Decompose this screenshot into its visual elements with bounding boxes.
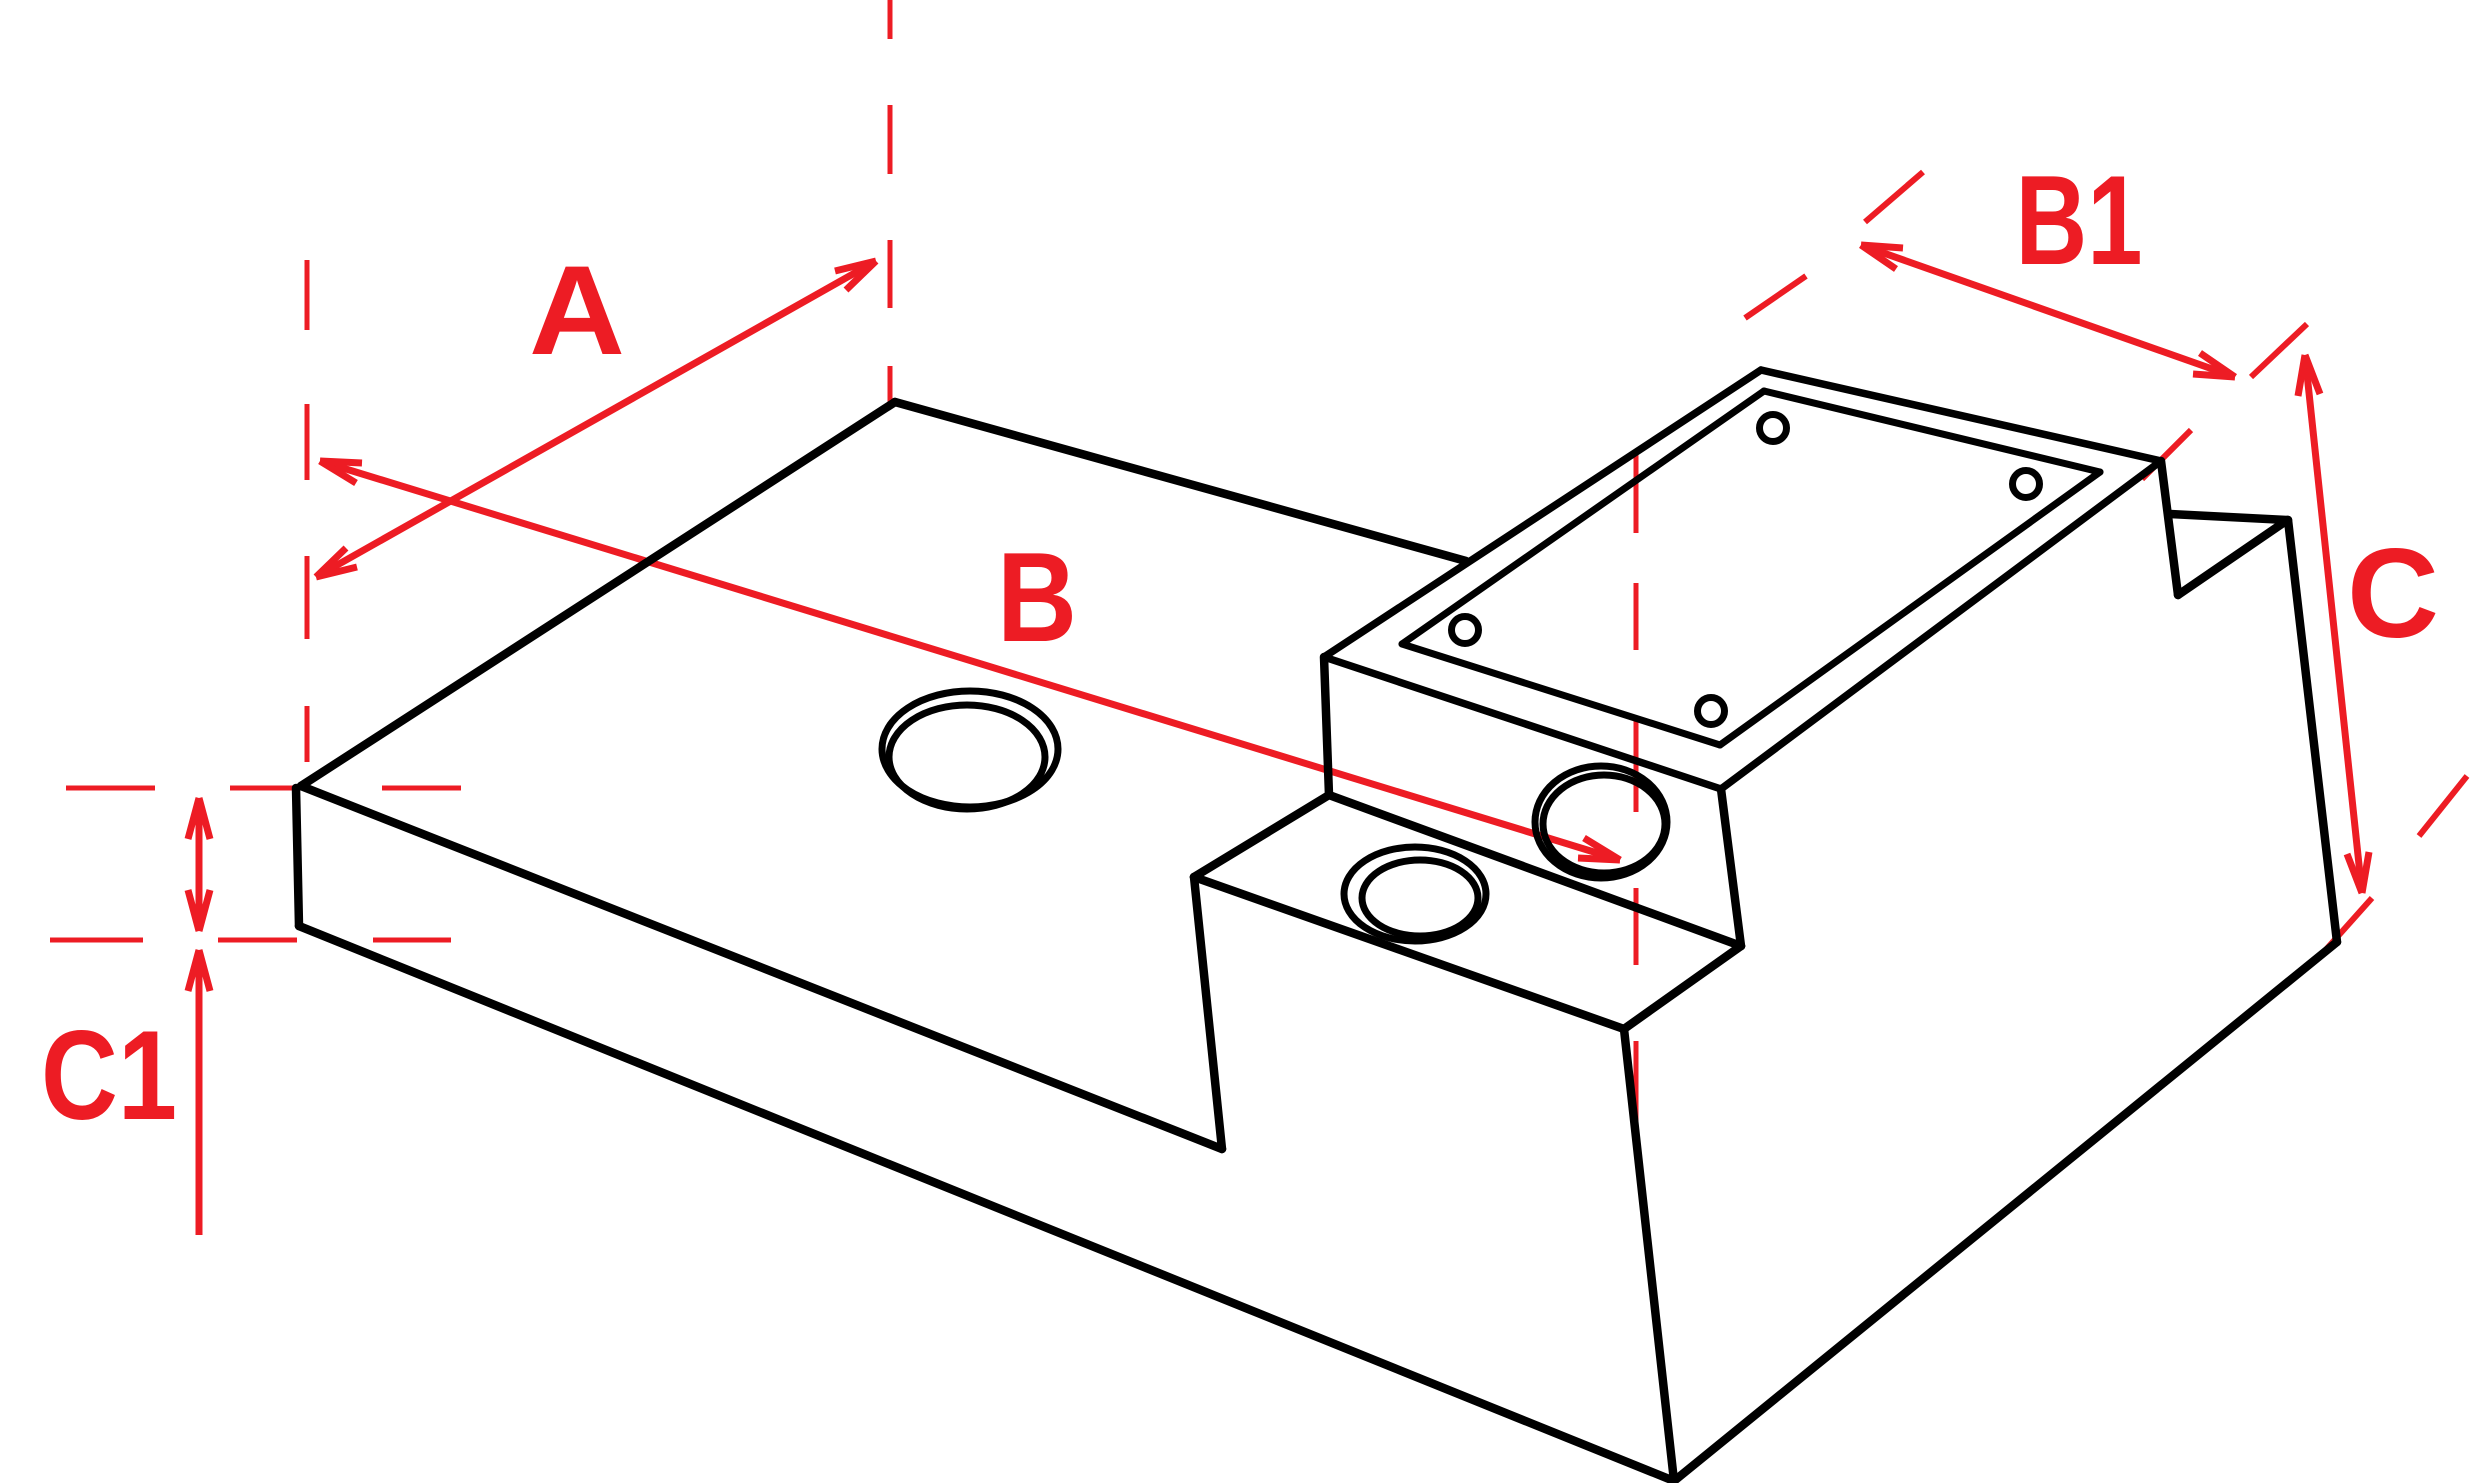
bolt hole bottom bbox=[1698, 698, 1725, 725]
left step hole inner ellipse bbox=[1362, 860, 1478, 936]
arrowhead B1 left bbox=[1861, 245, 1903, 269]
wire flange inner left edge bbox=[1402, 391, 1764, 644]
dimension line A bbox=[316, 261, 876, 577]
wire flange inner top-right edge bbox=[1764, 391, 2100, 472]
wire slab top-right rear edge bbox=[895, 402, 1466, 561]
bolt hole right bbox=[2013, 471, 2040, 498]
wire slab top front edge bbox=[301, 786, 1222, 1149]
wire flange inner bottom-left edge bbox=[1402, 644, 1720, 745]
svg-text:A: A bbox=[529, 239, 625, 381]
arrowhead B left bbox=[320, 461, 362, 483]
extension dashed centerline x=1636 bbox=[1634, 455, 1639, 1126]
red dimension graphics bbox=[188, 245, 2369, 1235]
wire flange inner bottom-right edge bbox=[1720, 472, 2100, 745]
wire tower left vertical edge bbox=[1324, 657, 1329, 795]
wire slab right triangle hypotenuse bbox=[2178, 521, 2286, 595]
extension dashed row y=940 bbox=[50, 938, 451, 943]
extension dashed line at apex x=890 bbox=[888, 0, 893, 404]
extension dashed line at left corner x=307 bbox=[305, 260, 310, 762]
arrowhead B right bbox=[1578, 838, 1620, 860]
svg-text:C: C bbox=[2347, 522, 2439, 664]
wire step front-left edge bbox=[1194, 877, 1624, 1029]
big hole outer ellipse bbox=[882, 691, 1058, 807]
arrowhead C1 top bbox=[188, 798, 210, 839]
wire flange outer bottom-left edge bbox=[1324, 657, 1721, 789]
svg-text:B: B bbox=[997, 526, 1077, 668]
big hole inner ellipse bbox=[889, 705, 1045, 809]
wire flange lip right descender bbox=[2161, 461, 2178, 595]
wire slab bottom front edge bbox=[299, 926, 1674, 1481]
right step hole inner ellipse bbox=[1543, 775, 1665, 873]
extension dash W1 upper bbox=[2251, 324, 2307, 377]
wire flange outer bottom-right edge bbox=[1721, 461, 2161, 789]
wire slab left vertical edge bbox=[296, 788, 299, 926]
extension dash W1 lower bbox=[2142, 430, 2191, 479]
wire slab bottom right edge bbox=[1674, 942, 2337, 1481]
extension dash B1 left lower bbox=[1745, 276, 1806, 318]
wire tower front bottom edge bbox=[1329, 795, 1741, 946]
wire flange outer top-right edge bbox=[1761, 370, 2161, 461]
tank body black outline bbox=[296, 402, 2337, 1481]
wire step rear-left edge bbox=[1194, 795, 1329, 877]
extension dash V7 upper bbox=[2419, 776, 2467, 836]
right step hole outer ellipse bbox=[1535, 766, 1667, 878]
bolt hole top bbox=[1760, 415, 1787, 442]
arrowhead A upper bbox=[835, 261, 876, 290]
left step hole outer ellipse bbox=[1344, 847, 1486, 941]
dimension line B1 bbox=[1861, 245, 2235, 377]
extension dashed row y=788 bbox=[66, 786, 461, 791]
dimension line C1 inner double arrow bbox=[196, 798, 203, 931]
wire slab right edge bbox=[2288, 520, 2337, 942]
arrowhead A lower bbox=[316, 548, 357, 577]
wire step front-right edge bbox=[1624, 946, 1741, 1029]
extension dash V7 lower bbox=[2322, 898, 2372, 954]
svg-text:B1: B1 bbox=[2016, 149, 2143, 291]
wire slab right triangle top edge bbox=[2170, 514, 2288, 520]
arrowhead B1 right bbox=[2193, 353, 2235, 377]
wire slab top-left rear edge bbox=[301, 402, 895, 786]
dimension line C bbox=[2305, 355, 2362, 893]
extension dash B1 left upper bbox=[1865, 172, 1923, 222]
arrowhead C bottom bbox=[2347, 852, 2369, 893]
dimension line C1 lower arrow bbox=[196, 950, 203, 1235]
arrowhead C1 bottom bbox=[188, 890, 210, 931]
arrowhead C top bbox=[2298, 355, 2320, 396]
dimension line B bbox=[320, 461, 1620, 860]
svg-text:C1: C1 bbox=[41, 1004, 177, 1146]
wire tower right-front vertical edge bbox=[1721, 789, 1741, 946]
wire notch wall edge bbox=[1194, 877, 1222, 1149]
wire front-right face left edge bbox=[1624, 1029, 1674, 1481]
bolt hole left bbox=[1452, 617, 1479, 644]
wire flange outer left edge bbox=[1324, 370, 1761, 657]
arrowhead C1 lower bbox=[188, 950, 210, 991]
